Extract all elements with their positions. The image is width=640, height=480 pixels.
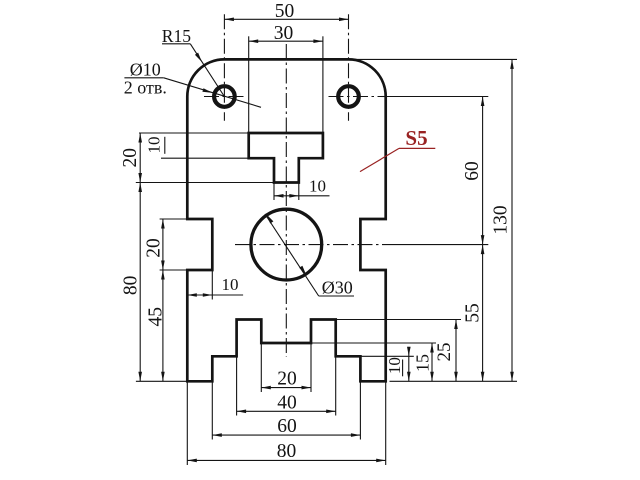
extension line bottom right — [390, 380, 518, 382]
dimension 25 — [434, 320, 458, 382]
dimension 15 — [412, 343, 434, 381]
svg-text:20: 20 — [120, 148, 141, 168]
dimension 40 — [237, 392, 336, 413]
svg-text:50: 50 — [275, 1, 295, 22]
extension line 25 — [336, 319, 461, 321]
extension line 30 left — [248, 36, 250, 133]
dimension 55 (circle height) — [463, 245, 485, 382]
extension line 55 top (circle axis ext) — [390, 244, 488, 246]
dimension 10 top left (T band, underlined) — [144, 137, 165, 154]
svg-text:40: 40 — [277, 392, 297, 413]
extension line 40 right — [335, 320, 337, 416]
svg-text:10: 10 — [385, 357, 404, 374]
dimension 130 (overall height) — [491, 59, 514, 381]
extension line notch bottom — [160, 269, 213, 271]
svg-text:10: 10 — [144, 137, 163, 154]
label &#216;10 2 holes with leader — [124, 60, 261, 108]
dimension 20 left (notch height) — [144, 219, 165, 270]
svg-text:2 отв.: 2 отв. — [124, 78, 167, 98]
svg-text:Ø10: Ø10 — [130, 60, 161, 80]
svg-text:Ø30: Ø30 — [322, 277, 353, 297]
extension line T top — [139, 132, 249, 134]
dimension 80 (overall width) — [187, 441, 385, 462]
center line left hole horizontal — [204, 96, 245, 98]
T-shaped cutout — [249, 133, 323, 183]
label R15 with leader to arc center — [162, 26, 225, 96]
svg-text:15: 15 — [412, 354, 432, 372]
svg-text:45: 45 — [146, 307, 167, 327]
extension line 10 bottom right — [360, 355, 413, 357]
extension line bottom left — [136, 380, 187, 382]
extension line stem right — [298, 183, 300, 201]
extension line 80 bottom left — [186, 381, 188, 465]
dimension 80 left — [121, 183, 143, 382]
extension line 20 bottom left — [260, 343, 262, 392]
extension line notch top — [160, 218, 188, 220]
center line big circle horizontal — [235, 244, 390, 246]
dimension 10 bottom right (underlined) — [385, 347, 410, 382]
dimension 10 (notch depth) — [187, 275, 243, 297]
dimension 60 (holes to circle) — [462, 97, 485, 245]
dimension 45 — [146, 270, 167, 381]
center line left hole vertical — [223, 14, 225, 120]
extension line 15 — [311, 342, 436, 344]
svg-text:20: 20 — [277, 369, 297, 390]
svg-text:55: 55 — [463, 303, 484, 323]
center line right hole vertical — [348, 14, 350, 120]
extension line 60 bottom left — [211, 356, 213, 439]
svg-text:25: 25 — [434, 343, 455, 362]
extension line T stem bottom — [136, 182, 274, 184]
label &#216;30 with diameter leader — [265, 214, 354, 297]
extension line 130 top — [355, 58, 517, 60]
central hole &#216;30 — [251, 209, 322, 280]
dimension 50 (hole spacing) — [224, 1, 348, 22]
part outline — [187, 59, 385, 381]
extension line 80 bottom right — [385, 381, 387, 465]
svg-text:S5: S5 — [405, 126, 427, 150]
svg-text:80: 80 — [121, 276, 142, 296]
extension line 20 bottom right — [310, 343, 312, 392]
dimension 20 (bottom slot) — [261, 369, 311, 390]
extension line 30 right — [322, 36, 324, 133]
svg-text:30: 30 — [274, 23, 294, 44]
svg-text:60: 60 — [462, 161, 483, 181]
dimension 30 (T-slot width) — [249, 23, 323, 44]
extension line 60 bottom right — [359, 356, 361, 439]
extension line T shoulder — [161, 157, 249, 159]
svg-text:20: 20 — [144, 238, 165, 258]
hole left &#216;10 — [214, 86, 235, 107]
center line right hole horizontal — [329, 96, 387, 98]
dimension 60 bottom — [212, 416, 360, 437]
dimension 20 top left (T depth) — [120, 133, 142, 183]
label S5 (sheet thickness) red — [360, 126, 435, 172]
svg-text:R15: R15 — [162, 26, 191, 46]
hole right &#216;10 — [338, 86, 359, 107]
extension line notch depth vertical — [211, 270, 213, 300]
svg-text:60: 60 — [277, 416, 297, 437]
dimension 10 (stem width) — [274, 177, 330, 198]
svg-text:80: 80 — [277, 441, 297, 462]
part vertical center line — [285, 44, 287, 357]
extension line 40 left — [236, 320, 238, 416]
svg-text:130: 130 — [491, 205, 512, 234]
extension line stem left — [273, 183, 275, 201]
svg-text:10: 10 — [309, 177, 326, 196]
svg-text:10: 10 — [222, 275, 239, 294]
extension line 60 right — [386, 96, 488, 98]
